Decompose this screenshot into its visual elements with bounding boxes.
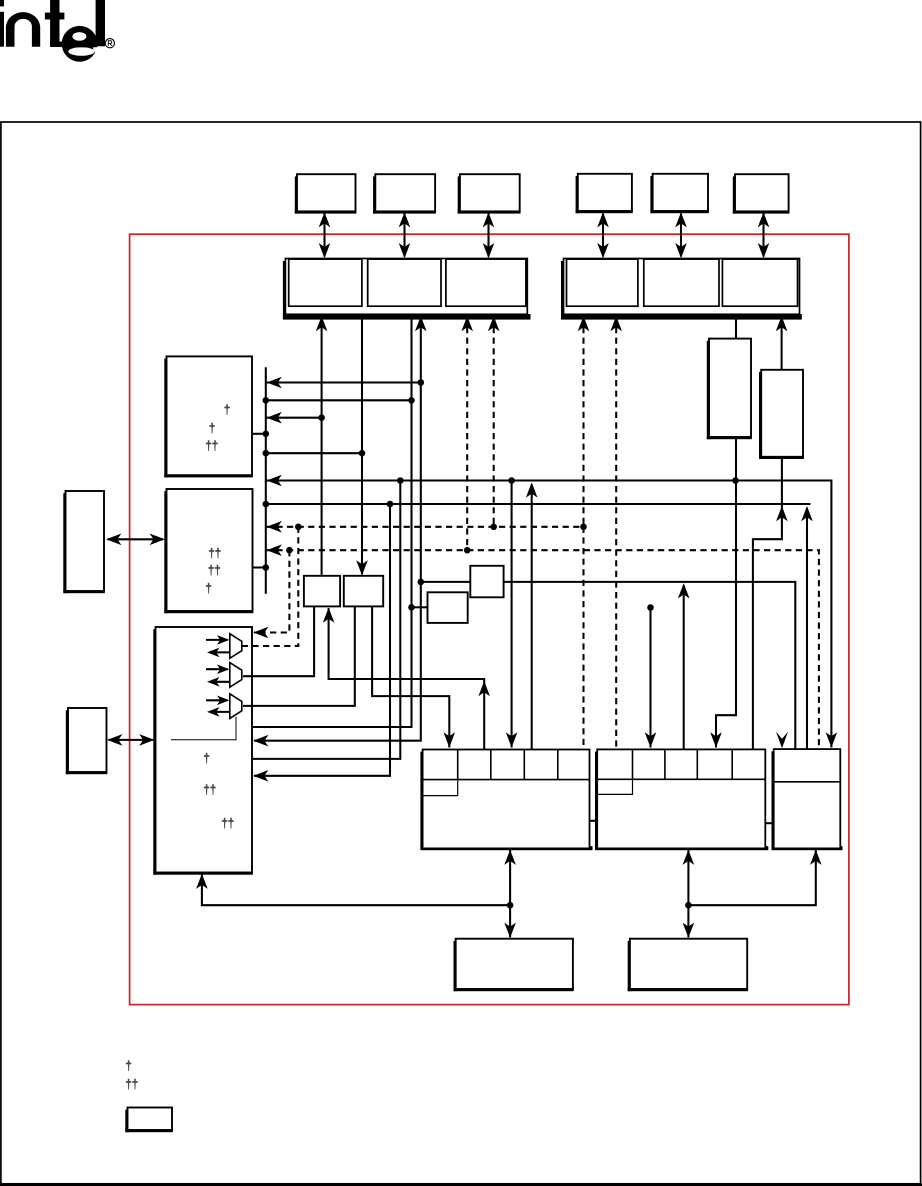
bidirectional arrow P6 to bus unit xyxy=(762,214,764,257)
bidirectional arrow P4 to bus unit xyxy=(602,214,604,257)
bidirectional arrow P1 to bus unit xyxy=(323,214,325,257)
arrowhead into right bus x616 xyxy=(610,316,622,331)
port box P2 xyxy=(373,174,436,213)
long wire y480 to right boxes xyxy=(266,481,832,748)
arrowhead into watchdog top right xyxy=(826,732,838,747)
wire spine to V420 xyxy=(266,381,421,383)
arrowhead into S2 top xyxy=(356,560,368,575)
program counter box S3 xyxy=(428,592,468,623)
bidirectional arrow middle peripheral to oscillator xyxy=(687,850,689,937)
wire core edge y775 from V390 xyxy=(254,504,390,776)
stub PTS box to spine xyxy=(253,566,266,568)
wire V321 to spine xyxy=(266,417,322,419)
junction dot clock branch left xyxy=(507,902,514,909)
junction dots on V411 xyxy=(408,397,415,611)
bus unit (right) section 1 xyxy=(567,259,638,306)
junction dot on wire y504 xyxy=(387,501,394,508)
dashed wire D1 junction to left cell5 xyxy=(582,527,584,750)
bus unit (left) section 3 xyxy=(446,259,526,306)
slave PC box T2 xyxy=(759,370,804,459)
arrowhead into left bus x493 xyxy=(488,316,500,331)
arrowhead into S1 bottom xyxy=(323,608,335,623)
legend dagger single xyxy=(126,1060,131,1071)
stack pointer box S2 xyxy=(344,576,383,607)
wire left cell2 up to S1 xyxy=(329,608,485,750)
junction dot clock branch right xyxy=(685,902,692,909)
registered trademark symbol xyxy=(105,39,114,48)
arrowhead up on T2 wire at y504 xyxy=(776,506,788,521)
interrupt controller box xyxy=(164,356,253,477)
arrowhead into watchdog bottom xyxy=(810,850,822,865)
mux 3 output stub arrow xyxy=(210,711,230,713)
middle peripheral cell row xyxy=(597,749,765,794)
bidirectional arrow ext-interrupts to PTS xyxy=(108,538,164,540)
peripheral transaction server box xyxy=(164,489,253,613)
bus interface unit (left) outer frame xyxy=(283,261,287,319)
mux 2 input stub arrow xyxy=(206,668,228,670)
dashed wire right bus to x583 xyxy=(582,316,584,526)
port box P1 xyxy=(295,174,357,213)
register file core box xyxy=(153,627,253,875)
arrowhead into watchdog top left xyxy=(776,732,788,749)
link left-middle peripheral xyxy=(590,820,598,822)
dashed wire D2 xyxy=(266,550,819,747)
mux 1 (source select) xyxy=(230,634,242,659)
wire S2 to left cell1 xyxy=(372,607,449,748)
wire spine to V362 xyxy=(266,452,362,454)
peripheral block left (timer/EPA) xyxy=(420,752,424,849)
dagger note 3 in PTS box xyxy=(206,583,211,594)
arrowhead into right bus x781 xyxy=(776,316,788,331)
dagger note 3 in core box xyxy=(222,818,234,829)
legend dagger double xyxy=(126,1079,138,1090)
port box P3 xyxy=(458,174,521,213)
junction dots on dashed D1 xyxy=(295,524,587,531)
mux 3 (B-side select) xyxy=(230,694,242,719)
stub interrupt box to spine xyxy=(252,433,266,435)
wire oscillator branch to watchdog xyxy=(688,850,815,905)
arrowhead into core box y740 xyxy=(253,735,268,747)
junction dot above middle cell2 xyxy=(647,604,654,611)
wire V411 to S3 xyxy=(412,606,428,608)
red chip boundary xyxy=(130,234,849,1004)
bidirectional arrow left peripheral to clock generator xyxy=(509,850,511,937)
dagger note 1 in core box xyxy=(204,753,209,764)
dagger note 3 in interrupt box xyxy=(206,440,218,451)
junction dots on spine xyxy=(263,397,270,571)
wire dot to middle cell2 xyxy=(649,608,651,748)
internal register select line xyxy=(171,717,236,740)
arrowhead into core box y775 xyxy=(253,770,268,782)
bidirectional arrow pins to register file xyxy=(109,739,153,741)
mux 1 output stub arrow xyxy=(210,651,230,653)
PSW register box S1 xyxy=(304,576,340,607)
arrowhead into middle cell4 xyxy=(710,732,722,747)
intel logo xyxy=(0,0,105,62)
mux 2 output stub arrow xyxy=(210,681,230,683)
mux 1 input stub arrow xyxy=(206,639,228,641)
dashed wire bus to D2 junction xyxy=(466,316,468,550)
left peripheral cell row xyxy=(423,750,590,796)
dashed wire bus to D1 junction xyxy=(493,316,495,526)
wire left cell4 up to y480 xyxy=(531,485,533,750)
bidirectional arrow P3 to bus unit xyxy=(487,214,489,257)
wire S1 to mux2 xyxy=(243,607,314,676)
dashed wire D1 xyxy=(266,526,584,528)
wire V420 bus to core edge xyxy=(254,316,421,740)
arrowhead into core box bottom xyxy=(196,874,208,889)
watchdog divider xyxy=(774,781,841,783)
arrowhead into spine y417 xyxy=(267,412,282,424)
dashed wire D2 to core box xyxy=(254,550,289,632)
wire watchdog up to y504 wire xyxy=(806,508,808,749)
arrowhead into left bus x467 xyxy=(461,316,473,331)
peripheral block right (watchdog) xyxy=(772,751,776,848)
long wire y504 xyxy=(266,503,811,505)
bus unit (left) section 1 xyxy=(289,259,362,306)
port box P4 xyxy=(576,174,633,213)
wire left bus to S2 xyxy=(361,316,363,574)
wire V420 to S4 xyxy=(421,581,471,583)
port box P5 xyxy=(650,174,708,213)
dagger note 2 in interrupt box xyxy=(209,423,214,434)
wire S1 to left bus xyxy=(321,316,323,574)
dagger note 1 in PTS box xyxy=(209,548,221,559)
arrowhead into spine y382 xyxy=(267,377,282,389)
arrowhead into middle cell2 xyxy=(645,732,657,747)
bus interface unit (right) outer frame xyxy=(561,261,565,319)
peripheral block middle (serial/SIO) xyxy=(595,752,599,849)
dashed wire mux1 output to D1 xyxy=(242,527,298,646)
arrowhead dashed into core box xyxy=(253,627,268,639)
arrowhead into left cell1 xyxy=(444,732,456,747)
clock generator box xyxy=(454,939,574,992)
wire V411 bus to core edge xyxy=(252,316,411,727)
wire T1 to middle cell4 xyxy=(716,437,736,748)
port box P6 xyxy=(733,174,790,213)
external interrupt pins box xyxy=(63,491,105,593)
wire y480 to left cell3 xyxy=(511,481,513,748)
bidirectional arrow P5 to bus unit xyxy=(680,214,682,257)
wire middle cell3 up to S4 wire xyxy=(683,585,685,749)
wire core edge to V400 xyxy=(252,481,400,759)
arrowhead up into wire y480 xyxy=(526,482,538,497)
arrowhead into left bus x420 xyxy=(415,316,427,331)
dagger note 1 in interrupt box xyxy=(224,404,229,415)
arrowhead into left cell3 xyxy=(506,732,518,747)
arrowhead up at end of y504 wire xyxy=(801,506,813,521)
legend sample box xyxy=(125,1108,173,1133)
wire S4 to watchdog xyxy=(504,582,796,749)
bidirectional arrow P2 to bus unit xyxy=(403,214,405,257)
data bus spine xyxy=(265,367,267,594)
mux 2 (A-side select) xyxy=(230,663,242,688)
wire T2 down to middle cell5 xyxy=(753,457,782,750)
arrowhead up on cell2 wire xyxy=(478,681,490,696)
dashed wire right bus to middle cell1 xyxy=(615,316,617,749)
dagger note 2 in core box xyxy=(204,784,216,795)
junction dot on V362 xyxy=(359,450,366,457)
arrowhead into spine y527 xyxy=(267,521,282,533)
junction dot on V321 xyxy=(318,414,325,421)
arrowhead up into S4 wire xyxy=(678,583,690,598)
bus unit (right) section 3 xyxy=(722,259,797,306)
link middle-right peripheral xyxy=(765,822,773,824)
bus unit (left) section 2 xyxy=(368,259,441,306)
junction dots on wire y480 xyxy=(397,477,739,484)
mux 3 input stub arrow xyxy=(206,699,228,701)
prefetch queue box T1 xyxy=(707,339,752,440)
oscillator box xyxy=(628,939,748,992)
junction dots on V420 xyxy=(418,379,425,585)
arrowhead into left bus x321 xyxy=(316,316,328,331)
dagger note 2 in PTS box xyxy=(208,565,220,576)
wire spine to V411 xyxy=(266,399,412,401)
wire slave PC T2 to right bus xyxy=(781,316,783,369)
arrowhead into spine y480 xyxy=(267,475,282,487)
junction dots on dashed D2 xyxy=(286,547,470,554)
wire S2 to mux3 xyxy=(243,607,355,706)
arrowhead into right bus x583 xyxy=(578,316,590,331)
loop counter box S4 xyxy=(470,566,503,598)
wire clock branch to core box xyxy=(202,875,510,906)
arrowhead into spine y550 xyxy=(267,544,282,556)
wire right bus to prefetch queue T1 xyxy=(735,316,737,338)
bus unit (right) section 2 xyxy=(644,259,719,306)
address/data pins box xyxy=(66,708,108,774)
